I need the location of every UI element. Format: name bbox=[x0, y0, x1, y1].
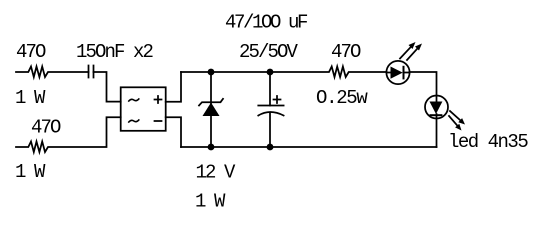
svg-text:1 W: 1 W bbox=[15, 161, 46, 183]
svg-text:47/1OO uF: 47/1OO uF bbox=[225, 12, 308, 34]
svg-text:1 W: 1 W bbox=[195, 191, 226, 213]
svg-text:47O: 47O bbox=[31, 117, 61, 139]
svg-text:15OnF x2: 15OnF x2 bbox=[76, 41, 154, 63]
svg-text:1 W: 1 W bbox=[15, 87, 46, 109]
svg-text:led 4n35: led 4n35 bbox=[448, 131, 528, 153]
svg-text:O.25w: O.25w bbox=[316, 87, 368, 109]
svg-text:47O: 47O bbox=[16, 41, 46, 63]
svg-text:47O: 47O bbox=[331, 41, 361, 63]
svg-text:12 V: 12 V bbox=[196, 162, 237, 184]
svg-text:25/5OV: 25/5OV bbox=[239, 41, 299, 63]
